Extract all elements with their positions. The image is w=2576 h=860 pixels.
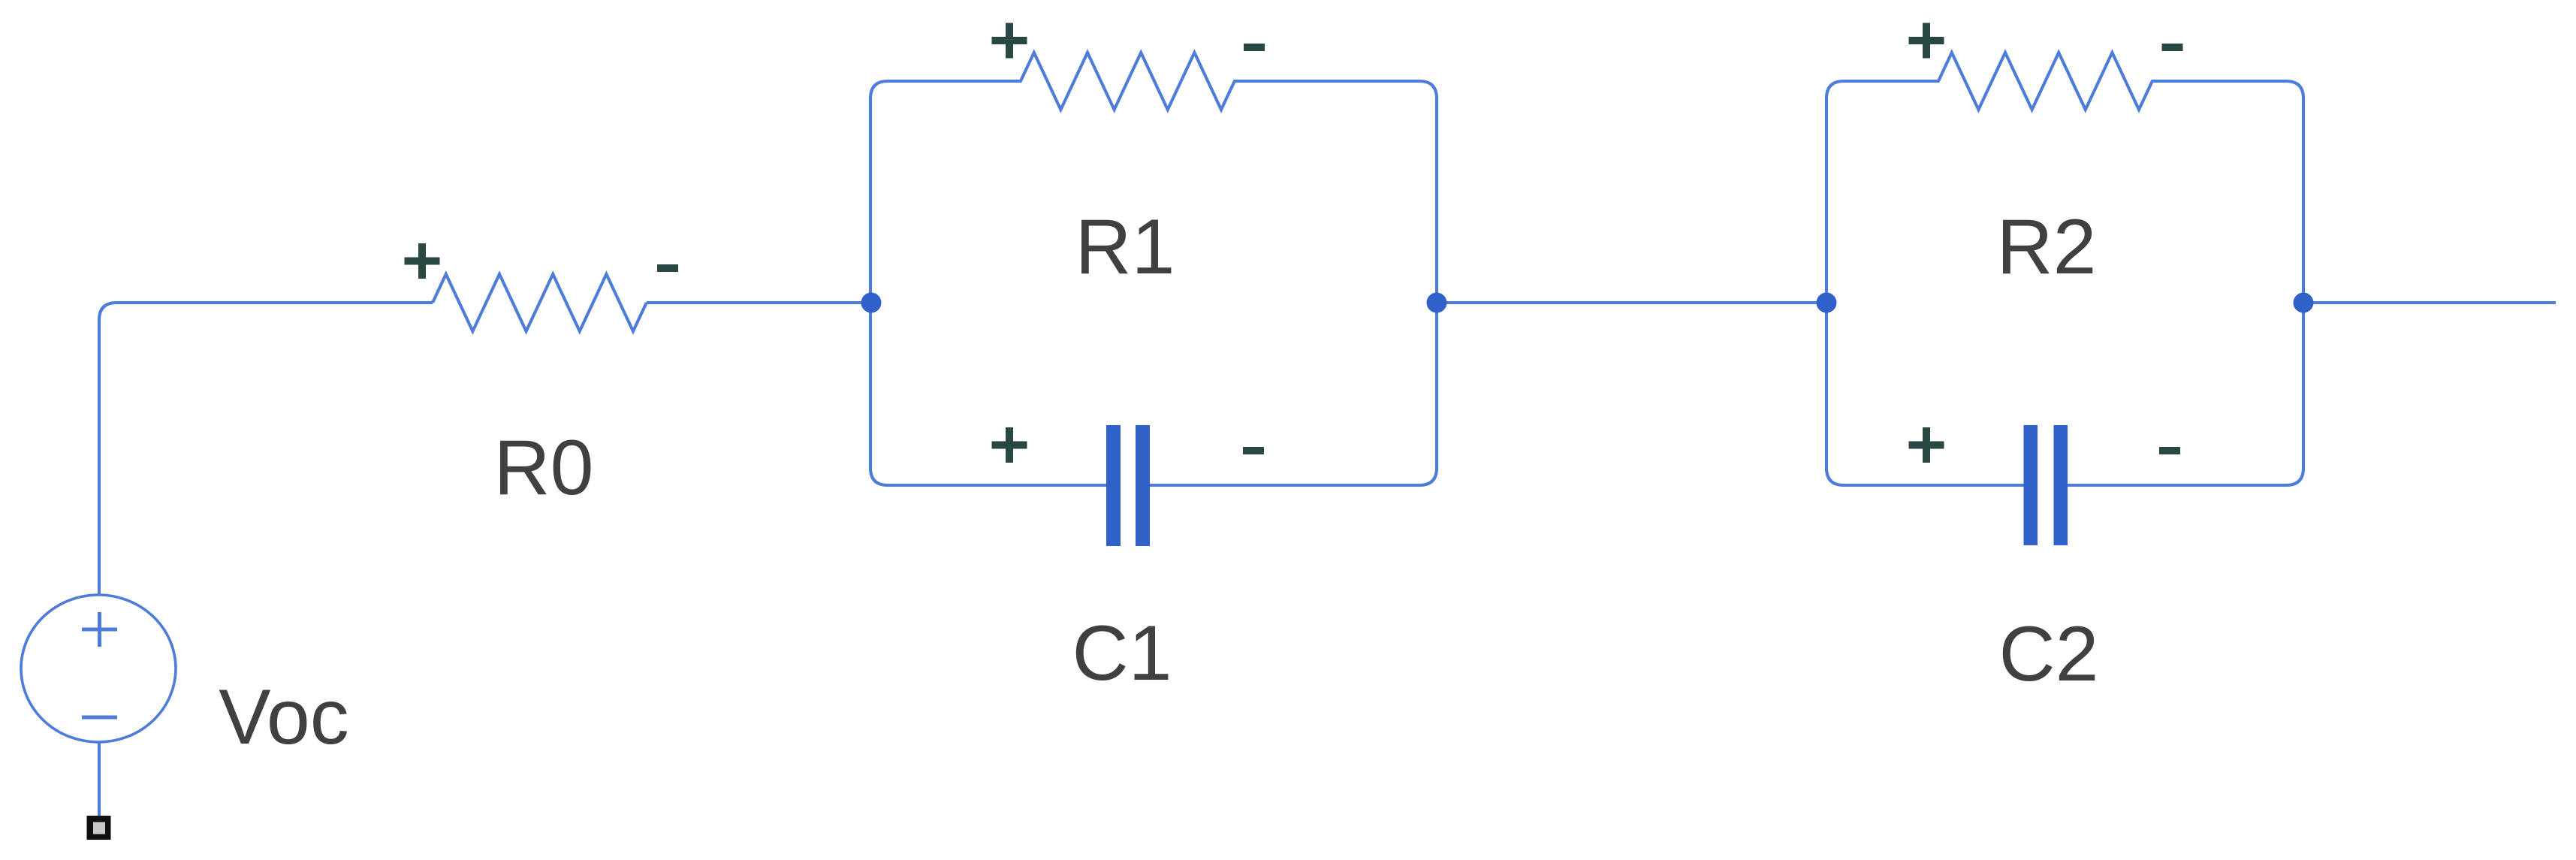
svg-text:R2: R2 — [1997, 204, 2097, 291]
output wire — [2303, 301, 2556, 304]
wire R0 to node A — [647, 301, 871, 304]
svg-text:Voc: Voc — [219, 674, 348, 761]
node A junction dot — [861, 293, 882, 313]
node C junction dot — [1817, 293, 1837, 313]
minus R2 — [2162, 44, 2183, 51]
resistor R0 — [433, 274, 647, 331]
minus R1 — [1244, 44, 1265, 51]
plus R0 — [405, 243, 440, 279]
loop wire R1/C1 (rounded rectangle with resistor zigzag, gap at capacitor) — [870, 53, 1437, 485]
capacitor C2 plates — [2024, 425, 2068, 545]
wire node B to node C — [1437, 301, 1826, 304]
ground terminal square — [87, 816, 111, 840]
svg-text:C2: C2 — [1999, 611, 2099, 698]
minus inside source — [82, 716, 117, 720]
plus R2 — [1909, 23, 1944, 59]
wire below source — [98, 742, 101, 817]
svg-text:R0: R0 — [494, 424, 594, 511]
node B junction dot — [1427, 293, 1447, 313]
plus R1 — [992, 23, 1027, 59]
capacitor C1 plates — [1106, 425, 1150, 546]
voltage source Voc circle — [21, 595, 176, 742]
wire from source up and to R0 (with rounded corner) — [99, 303, 433, 595]
minus C1 — [1243, 447, 1264, 454]
loop wire R2/C2 — [1826, 53, 2303, 485]
svg-text:C1: C1 — [1072, 610, 1172, 697]
plus C1 — [992, 427, 1027, 463]
plus inside source — [82, 612, 117, 647]
minus C2 — [2159, 447, 2180, 454]
svg-text:R1: R1 — [1075, 204, 1175, 291]
minus R0 — [657, 264, 678, 272]
node D junction dot — [2294, 293, 2314, 313]
plus C2 — [1909, 427, 1944, 463]
